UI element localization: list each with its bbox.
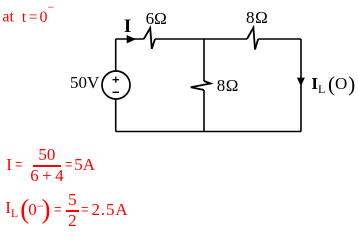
current arrow IL(0) (right branch, pointing down): [297, 78, 305, 86]
voltage source V1 circle: [102, 71, 130, 99]
wire middle branch lower: [203, 90, 205, 132]
wire left branch lower: [115, 99, 117, 132]
wire top-left segment: [116, 38, 144, 40]
equation IL(0-) = 5/2 = 2.5A: [5, 191, 128, 229]
label I (top current): [124, 17, 131, 36]
plus sign inside source: [113, 77, 119, 83]
wire right branch: [300, 39, 302, 132]
label 8 ohm top: [246, 9, 268, 26]
wire left branch upper: [115, 39, 117, 71]
label IL(O): [311, 74, 355, 95]
resistor R3 8ohm middle (vertical jag symbol): [191, 81, 211, 90]
current arrow I (on top wire): [127, 35, 136, 43]
node annotation: at t = 0^-: [2, 7, 54, 25]
minus sign inside source: [113, 91, 119, 93]
wire bottom: [116, 131, 301, 133]
label 6 ohm: [146, 10, 167, 27]
resistor R1 6ohm (jag symbol): [144, 28, 155, 49]
wire top-right segment: [258, 38, 301, 40]
equation I = 50/(6+4) = 5A: [6, 146, 95, 184]
label 8 ohm middle: [217, 77, 239, 94]
resistor R2 8ohm top (jag symbol): [247, 28, 258, 50]
label 50V: [70, 74, 99, 91]
wire middle branch upper: [203, 39, 205, 81]
wire top-middle segment: [155, 38, 247, 40]
